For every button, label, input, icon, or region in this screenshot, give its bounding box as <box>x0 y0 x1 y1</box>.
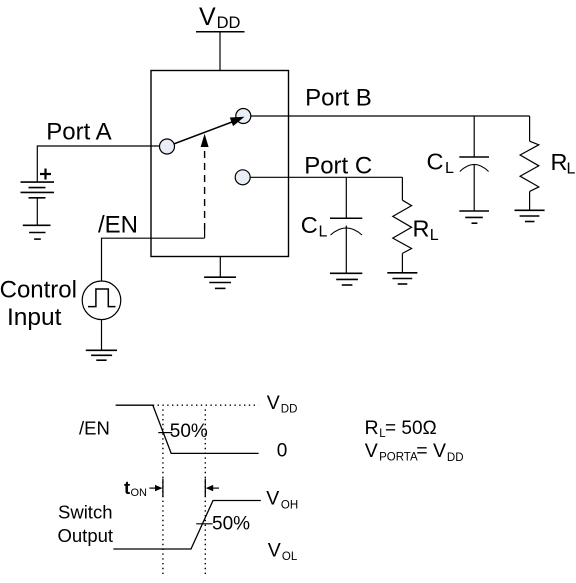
svg-text:V: V <box>268 539 281 561</box>
svg-text:R: R <box>551 149 568 175</box>
svg-text:V: V <box>199 3 216 31</box>
svg-text:V: V <box>267 392 280 414</box>
svg-text:R: R <box>365 417 379 439</box>
svg-text:V: V <box>365 440 378 462</box>
svg-text:C: C <box>427 148 444 174</box>
svg-text:DD: DD <box>217 14 241 32</box>
svg-text:50%: 50% <box>212 513 250 534</box>
svg-text:L: L <box>319 224 328 241</box>
svg-text:OH: OH <box>281 499 298 511</box>
svg-text:ON: ON <box>131 487 148 499</box>
svg-text:PORTA: PORTA <box>379 452 418 464</box>
svg-text:Port B: Port B <box>305 84 372 111</box>
svg-text:0: 0 <box>277 440 288 461</box>
svg-text:50%: 50% <box>170 421 208 442</box>
svg-text:R: R <box>413 215 430 241</box>
svg-text:Input: Input <box>7 304 62 331</box>
svg-text:Output: Output <box>58 525 114 546</box>
svg-text:= 50Ω: = 50Ω <box>385 418 437 439</box>
svg-text:V: V <box>266 488 279 510</box>
svg-text:Control: Control <box>0 277 77 304</box>
svg-text:/EN: /EN <box>79 417 110 438</box>
svg-text:DD: DD <box>281 404 298 416</box>
svg-text:L: L <box>567 161 576 178</box>
svg-text:OL: OL <box>282 551 298 563</box>
svg-text:/EN: /EN <box>98 212 138 239</box>
svg-text:Switch: Switch <box>58 501 113 522</box>
svg-text:L: L <box>430 227 439 244</box>
svg-text:Port C: Port C <box>304 153 372 180</box>
svg-text:DD: DD <box>447 452 464 464</box>
svg-text:C: C <box>301 212 318 238</box>
svg-text:L: L <box>445 160 454 177</box>
svg-text:= V: = V <box>416 440 446 462</box>
svg-text:t: t <box>124 477 130 498</box>
svg-text:Port A: Port A <box>46 118 111 145</box>
